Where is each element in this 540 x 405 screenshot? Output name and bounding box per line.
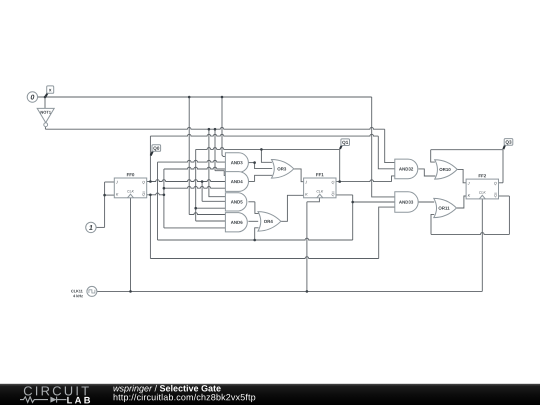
wire net-X to AND6 input A (189, 213, 225, 215)
or-gate OR4 label (264, 220, 273, 223)
junction clock FF0 (129, 290, 132, 293)
wire OR3 output to FF1 J (294, 169, 304, 182)
wire AND4 input C line (164, 186, 226, 188)
junction bus240 OR4 branch (253, 239, 256, 242)
wire net-NOTX branch down x=208.9 to AND5 input A (209, 129, 226, 197)
wire FF0 K stub (105, 194, 115, 196)
junction net-Q1 H4 (260, 148, 263, 151)
wire FF0 Qbar output (147, 193, 164, 195)
flip-flop FF1 labels (316, 173, 323, 176)
junction FF0 K tie (103, 194, 106, 197)
and-gate AND33 (395, 192, 418, 212)
wire net-Q3 up (502, 150, 504, 183)
wire net-Q1 rail H4 (196, 148, 340, 150)
wire net-Q0bar down to bottom bus (149, 195, 151, 259)
wire net-Q1bar bus 240 (158, 238, 353, 240)
junction FF1 Qbar branch (351, 201, 354, 204)
or-gate OR3 (272, 160, 294, 179)
wire FF1 clock jog (307, 198, 320, 202)
junction node-0/x-flag/NOT1 (44, 96, 47, 99)
junction FF0 Q (149, 180, 152, 183)
and-gate AND5 label (231, 200, 243, 203)
footer url text (114, 394, 256, 402)
inverter NOT1 (37, 108, 54, 122)
wire net-Q1 branch down to OR3 input A (261, 149, 272, 162)
wire net-Q0 from FF0 Q output (147, 180, 226, 182)
wire net-Q1bar up to OR4 input C (255, 228, 259, 240)
net flag Q3 label (506, 140, 512, 144)
wire net-Q3bar up to OR11 input B (431, 214, 434, 234)
wire net-Q3 down to OR10 input A (431, 150, 435, 162)
junction AND3 output (253, 161, 256, 164)
wire net-NOTX from NOT1 bubble down (44, 127, 46, 130)
wire FF1 Qbar output (336, 194, 352, 196)
wire OR11 output to FF2 K (457, 196, 467, 208)
wire net-Q0bar branch x=163.9 (163, 169, 165, 228)
wire AND32 output to OR10 input B (418, 169, 435, 176)
wire AND6 output to OR4 input B (248, 220, 258, 222)
wire FF0 J-K tie vertical (104, 182, 106, 227)
wire net-Q0 rail H3 (150, 134, 378, 136)
wire net-X branch down at x=222 to AND3 input A (222, 97, 225, 157)
junction net-Q0 at x=202.1 (201, 180, 204, 183)
wire net-Q1 to AND6 input B (196, 220, 226, 222)
wire OR4 output to FF1 K (281, 195, 304, 221)
wire net-Q1 to AND5 input C (196, 207, 226, 209)
wire net-Q3bar bottom feedback (431, 233, 509, 235)
footer title text (113, 385, 152, 393)
net flag x (46, 93, 48, 97)
flip-flop FF0 labels (127, 173, 134, 176)
junction FF0 Qbar (149, 194, 152, 197)
wire net-Q0 up to rail H3 (149, 136, 151, 181)
junction net-Q1 AND5 input C (194, 207, 197, 210)
wire OR10 output to FF2 J (457, 169, 466, 182)
net flag Q3 (503, 145, 505, 150)
wire FF2 Q output (499, 182, 504, 184)
or-gate OR3 label (277, 167, 286, 170)
wire AND3 output jog down to OR3 input B (255, 163, 273, 169)
junction net-X at x=222 (221, 96, 224, 99)
footer CircuitLab logo text CIRCUIT (24, 386, 89, 395)
junction net-Q0bar Qbar line (163, 194, 166, 197)
wire CLK11 output bus (97, 290, 482, 292)
and-gate AND32 label (399, 167, 413, 170)
wire net-X branch down at x=189.2 (188, 97, 190, 215)
wire AND3 input B line (158, 160, 226, 162)
footer bar (0, 384, 540, 405)
and-gate AND3 (225, 153, 248, 173)
wire net-Q1 H4 left end down (195, 149, 197, 221)
wire AND33 output to OR11 input A (418, 201, 434, 203)
and-gate AND6 label (231, 221, 243, 224)
wire FF1 Q output (336, 180, 391, 182)
footer CircuitLab logo text LAB (67, 397, 90, 403)
wire AND4 output (248, 181, 254, 183)
flip-flop FF1 (304, 178, 336, 198)
wire FF0 clock drop (130, 198, 132, 292)
wire AND3 output (248, 162, 254, 164)
wire net-Q0bar bottom bus (150, 257, 378, 259)
wire net-NOTX branch down x=215 (214, 129, 216, 171)
or-gate OR10 (435, 160, 458, 179)
footer logo waveform (20, 397, 48, 403)
wire net-Q0 to AND5 input B (202, 200, 225, 202)
net flag Q0 (151, 151, 153, 156)
inverter NOT1 label (41, 111, 51, 114)
wire net-NOTX jog to AND4 input A (215, 171, 225, 176)
net flag Q1 (340, 145, 342, 149)
or-gate OR11 label (439, 207, 450, 210)
and-gate AND3 label (231, 161, 243, 164)
and-gate AND6 (225, 213, 247, 232)
wire FF2 clock rise (481, 199, 483, 292)
node 0 label (31, 95, 35, 100)
wire net-Q1 up into AND32 input C (392, 176, 395, 182)
wire net-Q3 top feedback (431, 149, 503, 151)
junction net-X at x=189.2 (188, 96, 191, 99)
wire net-Q1 vertical from FF1 Q up to H4 (339, 149, 341, 181)
wire net-NOTX right end down to AND32 input A (385, 129, 395, 162)
flip-flop FF2 labels (479, 174, 486, 177)
wire net-Q3bar down (508, 196, 510, 234)
wire AND5 output (248, 201, 255, 203)
wire net-Q1bar branch x=157.5 to AND3 input B (157, 162, 159, 240)
junction net-NOTX at x=208.9 (208, 128, 211, 131)
and-gate AND33 label (399, 201, 413, 204)
net flag Q0 label (153, 147, 159, 151)
wire net-Q1bar to AND33 input B (353, 201, 395, 203)
wire net-NOTX rail H2 (45, 127, 384, 129)
wire net-Q0 branch down x=202.1 (201, 182, 203, 202)
junction FF1 Q (338, 180, 341, 183)
wire net-Q1bar down (352, 195, 354, 240)
wire AND4 output jog up to OR3 input C (255, 175, 273, 181)
and-gate AND4 (225, 172, 248, 192)
wire FF2 Qbar output (499, 195, 510, 197)
node 1 terminal (86, 222, 96, 232)
net flag Q1 label (342, 141, 348, 145)
wire net-Q0bar up to AND33 input C (379, 207, 395, 258)
wire AND3 input C line (164, 167, 226, 169)
flip-flop FF2 (466, 179, 498, 199)
or-gate OR4 (258, 212, 281, 232)
junction AND4 input C line (163, 187, 166, 190)
net flag x label (49, 89, 52, 91)
and-gate AND4 label (231, 180, 243, 183)
clock source CLK11 (87, 286, 97, 296)
node 0 terminal (27, 92, 37, 102)
and-gate AND5 (225, 193, 246, 211)
wire net-Q0 H3 end down to AND32 input B (378, 136, 395, 169)
or-gate OR10 label (439, 168, 450, 171)
wire AND5 output jog down to OR4 input A (255, 202, 259, 214)
wire net-X top rail from node 0 (38, 96, 372, 98)
wire net-X right branch down at x=371.7 to AND33 input A (372, 97, 395, 197)
wire FF0 J stub (105, 181, 115, 183)
or-gate OR11 (434, 198, 457, 217)
junction clock FF1 (306, 290, 309, 293)
wire node 1 to FF0 (96, 226, 105, 228)
and-gate AND32 (395, 159, 418, 179)
wire AND6 input C line (164, 227, 226, 229)
junction net-NOTX at x=215 (214, 128, 217, 131)
flip-flop FF0 (114, 178, 146, 198)
clock source CLK11 labels (71, 290, 83, 293)
wire FF1 clock drop (306, 202, 308, 292)
node 1 label (89, 225, 92, 230)
wire node0 to NOT1 input (44, 97, 46, 108)
